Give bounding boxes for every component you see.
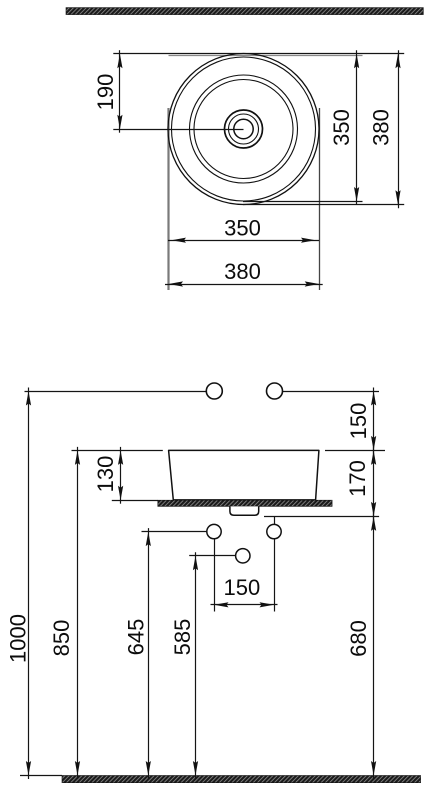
extension line at basin rim left: [72, 450, 163, 452]
worktop edge top (grey): [169, 55, 363, 57]
dimension 190: [93, 50, 123, 133]
dimension 350 horizontal: [168, 216, 319, 243]
dimension 585: [170, 552, 198, 779]
basin bowl circle inner: [194, 80, 293, 179]
svg-text:150: 150: [346, 403, 371, 440]
svg-text:190: 190: [93, 74, 118, 111]
dimension 170: [345, 447, 376, 520]
basin outer rim circle: [168, 54, 319, 205]
svg-text:170: 170: [345, 460, 370, 497]
basin rim inner edge circle: [172, 57, 316, 201]
drain outlet below slab: [230, 506, 259, 515]
svg-text:645: 645: [124, 619, 149, 656]
worktop edge left (grey): [167, 108, 169, 290]
centre line to drain: [113, 129, 243, 131]
extension vertical left supply: [214, 539, 216, 612]
wall fixing holes line: [25, 391, 207, 393]
drain inner circle: [234, 119, 253, 138]
dimension 350 vertical: [329, 50, 359, 205]
floor extension line: [20, 775, 62, 777]
dimension 380 vertical: [369, 50, 401, 208]
supply hole left: [207, 524, 221, 538]
drain outer circle: [225, 110, 263, 148]
extension line drain bottom: [264, 516, 379, 518]
extension line at basin rim right: [325, 450, 385, 452]
top extension line: [113, 53, 404, 55]
svg-text:350: 350: [224, 216, 261, 241]
svg-text:130: 130: [93, 456, 118, 493]
dimension 380 horizontal: [165, 259, 323, 287]
worktop slab (hatched): [158, 500, 332, 506]
floor bar (hatched): [62, 776, 421, 783]
extension line slab left: [112, 500, 158, 502]
drain middle circle: [229, 114, 259, 144]
svg-text:585: 585: [170, 619, 195, 656]
stub right supply hole to drain line: [274, 516, 276, 524]
extension line 380 bottom tangent: [243, 204, 404, 206]
svg-text:680: 680: [346, 620, 371, 657]
svg-text:150: 150: [224, 575, 261, 600]
wall fixing hole right: [267, 383, 283, 399]
svg-text:350: 350: [329, 109, 354, 146]
dimension 150 holes spacing: [211, 575, 278, 607]
dimension 680: [346, 513, 376, 779]
svg-text:850: 850: [49, 620, 74, 657]
tap hole: [236, 549, 250, 563]
dimension 150 right: [346, 388, 376, 454]
dimension 1000: [6, 388, 32, 780]
supply hole right: [267, 524, 281, 538]
svg-text:380: 380: [224, 259, 261, 284]
extension line 350 bottom tangent: [243, 201, 363, 203]
wall section bar (top view): [66, 8, 423, 15]
worktop edge right: [319, 108, 321, 290]
dimension 850: [49, 447, 80, 779]
basin front profile: [169, 450, 319, 500]
basin bowl circle outer: [190, 75, 298, 183]
dimension 130: [93, 447, 123, 504]
svg-text:380: 380: [369, 109, 394, 146]
extension line tap hole: [189, 555, 235, 557]
wall fixing hole left: [206, 383, 222, 399]
extension line supply holes: [142, 531, 207, 533]
extension vertical right supply: [274, 539, 276, 612]
dimension 645: [124, 528, 151, 779]
svg-text:1000: 1000: [6, 614, 31, 663]
